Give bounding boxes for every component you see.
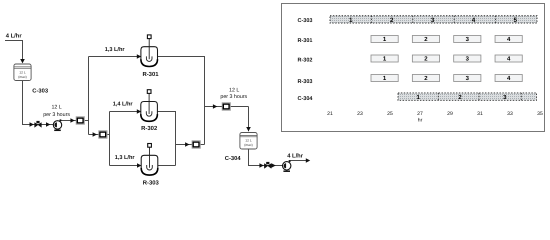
- svg-text:1: 1: [349, 17, 353, 24]
- svg-text:25: 25: [387, 111, 393, 117]
- svg-text:R-303: R-303: [143, 180, 160, 187]
- svg-text:4: 4: [472, 17, 476, 24]
- svg-text:31: 31: [477, 111, 483, 117]
- svg-text:per 3 hours: per 3 hours: [220, 94, 247, 100]
- svg-text:12 L: 12 L: [51, 105, 61, 111]
- svg-text:C-303: C-303: [32, 88, 49, 95]
- svg-text:21: 21: [327, 111, 333, 117]
- svg-text:12 L: 12 L: [245, 139, 252, 143]
- svg-text:33: 33: [507, 111, 513, 117]
- svg-text:2: 2: [390, 17, 394, 24]
- svg-text:R-302: R-302: [141, 125, 158, 132]
- svg-text:29: 29: [447, 111, 453, 117]
- svg-text:4 L/hr: 4 L/hr: [6, 32, 23, 39]
- svg-text:1,4 L/hr: 1,4 L/hr: [113, 101, 134, 108]
- svg-text:1,3 L/hr: 1,3 L/hr: [115, 154, 136, 161]
- svg-text:27: 27: [417, 111, 423, 117]
- svg-text:per 3 hours: per 3 hours: [43, 112, 70, 118]
- svg-text:5: 5: [514, 17, 518, 24]
- svg-text:C-303: C-303: [298, 18, 313, 24]
- svg-text:hr: hr: [418, 117, 423, 123]
- svg-text:12 L: 12 L: [229, 87, 239, 93]
- svg-text:R-302: R-302: [298, 57, 313, 63]
- svg-text:4 L/hr: 4 L/hr: [287, 152, 304, 159]
- svg-text:R-301: R-301: [298, 38, 313, 44]
- svg-text:1,3 L/hr: 1,3 L/hr: [105, 46, 126, 53]
- svg-text:23: 23: [357, 111, 363, 117]
- svg-text:3: 3: [431, 17, 435, 24]
- svg-text:35: 35: [537, 111, 543, 117]
- svg-text:(max): (max): [244, 143, 252, 147]
- svg-text:R-301: R-301: [142, 71, 159, 78]
- svg-text:C-304: C-304: [298, 96, 314, 102]
- svg-text:12 L: 12 L: [19, 71, 26, 75]
- svg-text:(max): (max): [18, 75, 26, 79]
- svg-text:C-304: C-304: [225, 155, 242, 162]
- svg-text:R-303: R-303: [298, 79, 313, 85]
